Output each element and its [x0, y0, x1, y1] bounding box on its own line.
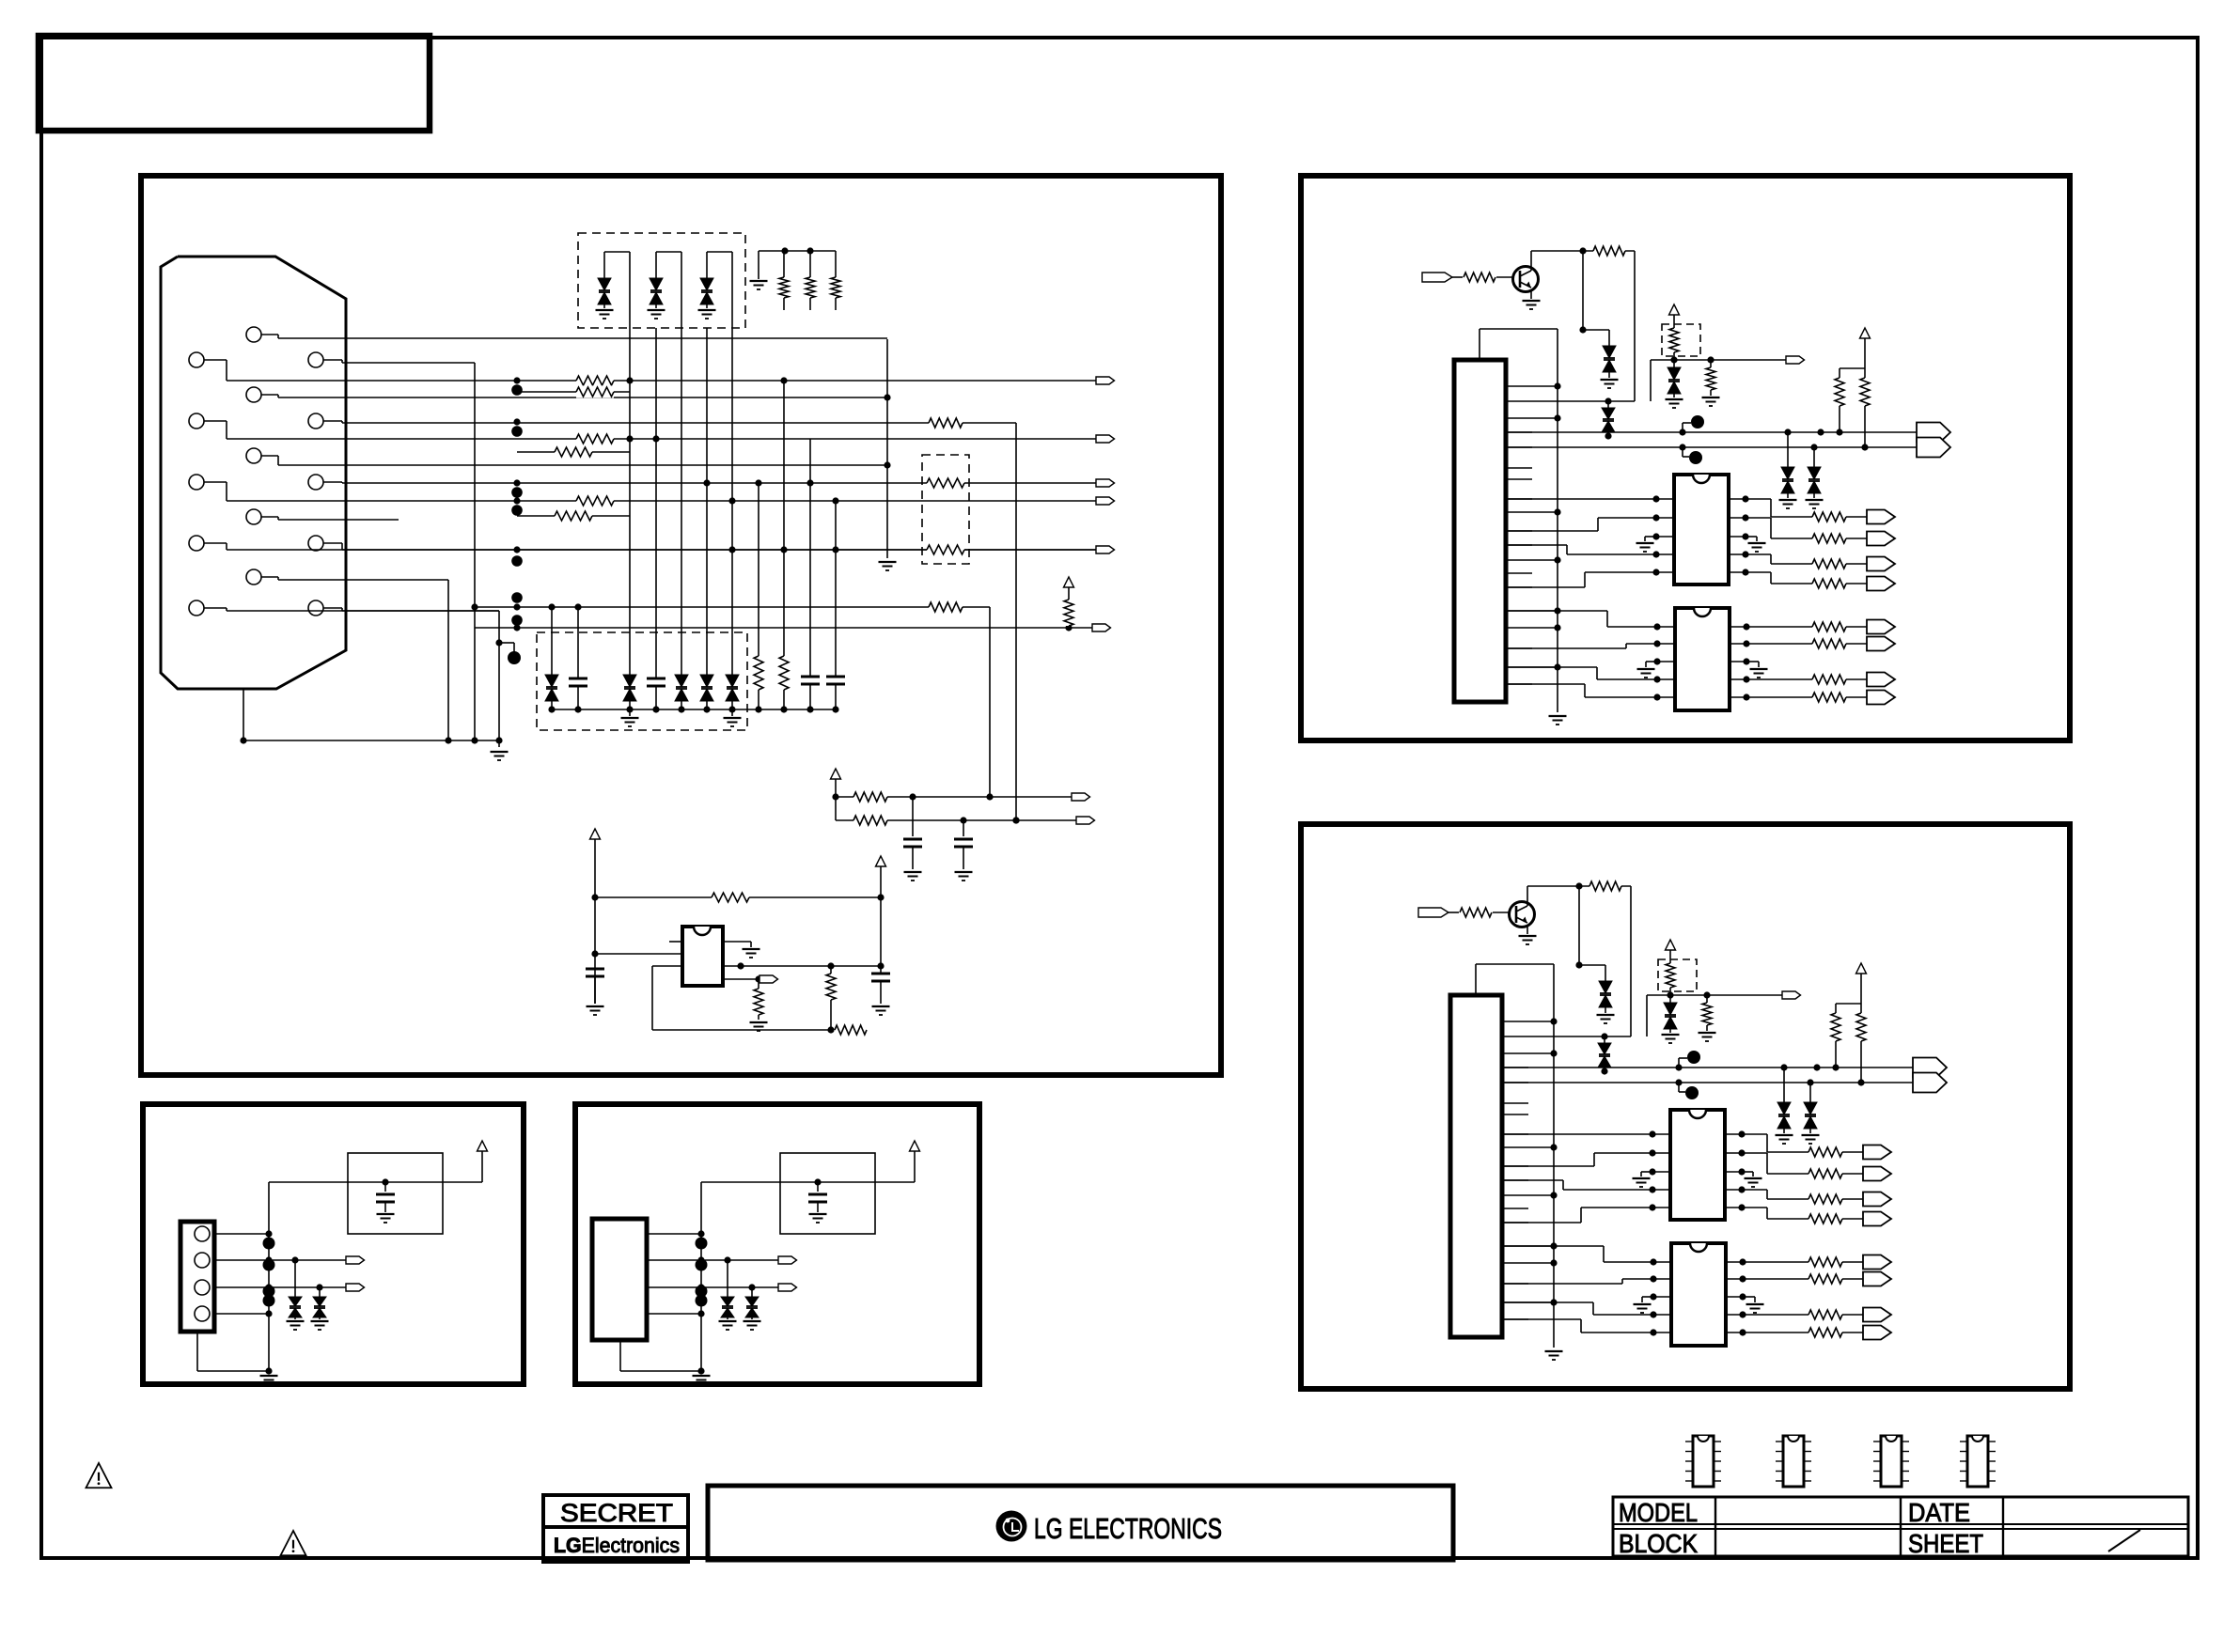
svg-text:LGElectronics: LGElectronics — [554, 1534, 680, 1557]
svg-text:LG ELECTRONICS: LG ELECTRONICS — [1034, 1512, 1222, 1545]
svg-text:MODEL: MODEL — [1619, 1498, 1698, 1527]
svg-text:BLOCK: BLOCK — [1619, 1529, 1698, 1558]
svg-text:SHEET: SHEET — [1908, 1529, 1983, 1558]
svg-text:SECRET: SECRET — [560, 1499, 673, 1527]
svg-text:DATE: DATE — [1908, 1498, 1970, 1527]
